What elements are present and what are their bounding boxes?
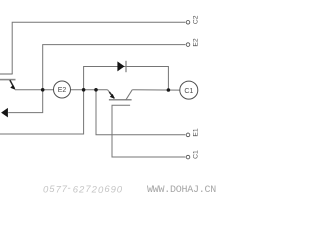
svg-text:0: 0 <box>117 185 123 196</box>
svg-text:0: 0 <box>98 185 104 196</box>
svg-text:E1: E1 <box>192 128 199 137</box>
svg-text:E2: E2 <box>192 38 199 47</box>
svg-text:6: 6 <box>104 184 110 195</box>
svg-text:0: 0 <box>43 185 49 196</box>
svg-text:5: 5 <box>49 184 55 195</box>
svg-text:-: - <box>67 183 70 194</box>
svg-text:C1: C1 <box>184 88 193 95</box>
svg-text:2: 2 <box>91 185 98 196</box>
svg-text:C2: C2 <box>192 15 199 24</box>
svg-text:6: 6 <box>73 184 79 195</box>
svg-text:9: 9 <box>111 185 117 196</box>
svg-text:E2: E2 <box>58 87 67 94</box>
svg-text:7: 7 <box>85 184 91 195</box>
svg-text:2: 2 <box>78 185 85 196</box>
svg-text:C1: C1 <box>192 150 199 159</box>
svg-text:WWW.DOHAJ.CN: WWW.DOHAJ.CN <box>147 185 216 196</box>
